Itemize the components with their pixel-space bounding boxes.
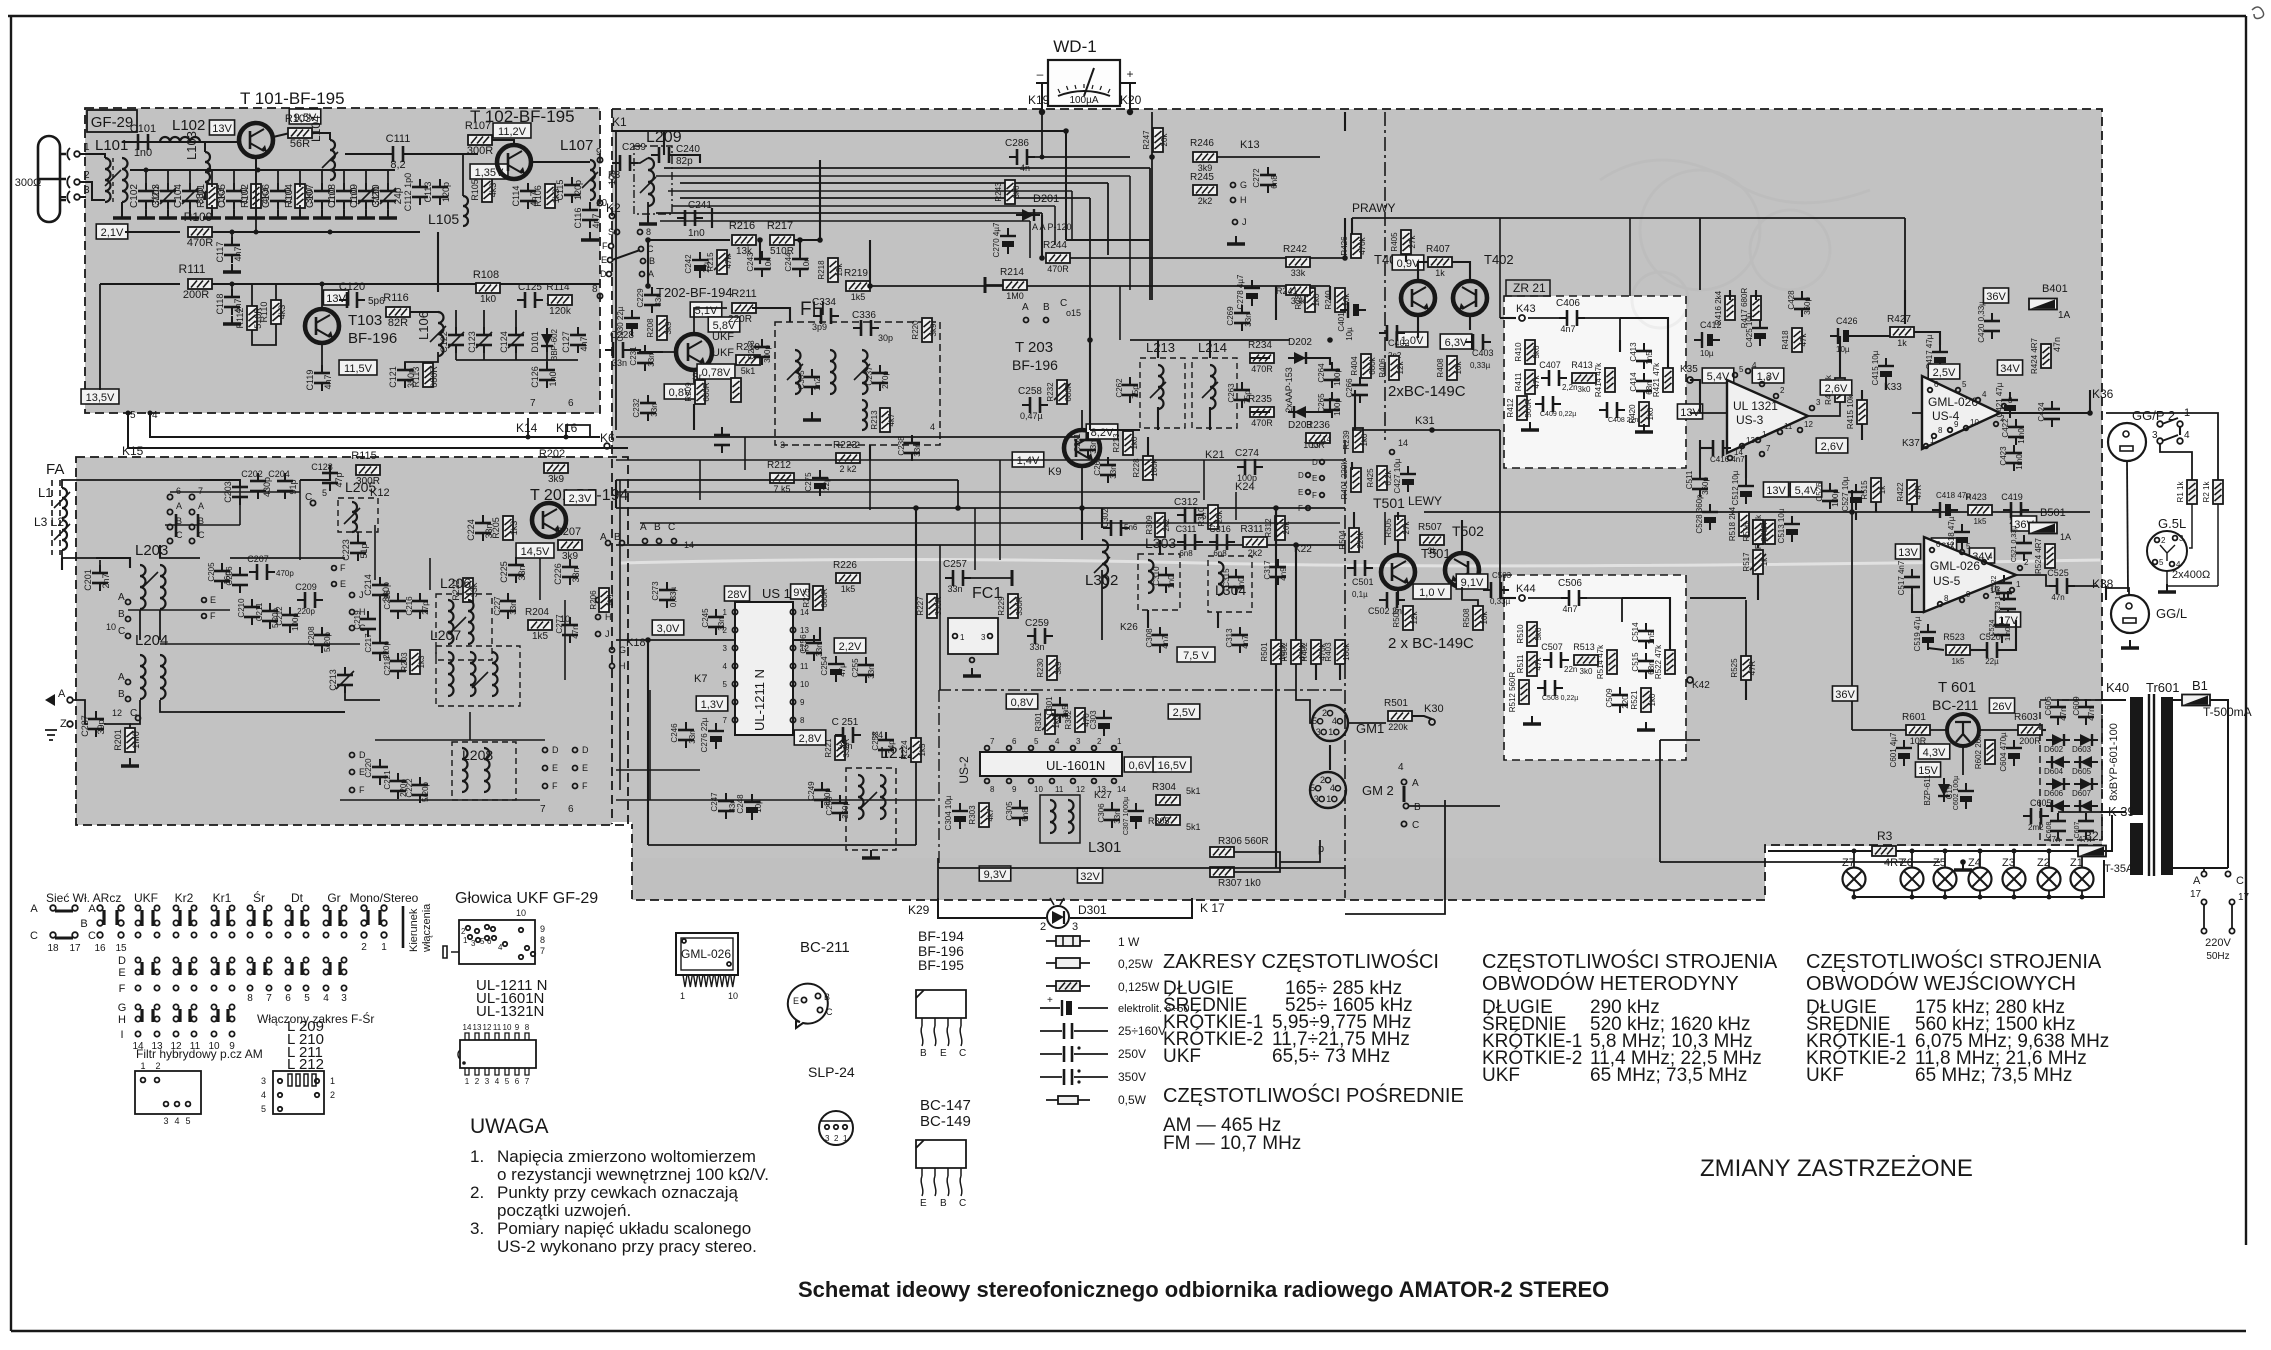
svg-text:2 x BC-149C: 2 x BC-149C: [1388, 635, 1474, 652]
svg-text:R602 26k: R602 26k: [1974, 734, 1983, 769]
tuner GF-29 dashed border: [85, 108, 600, 413]
capacitor C123: [476, 327, 492, 353]
scan shading central block: [612, 109, 2102, 900]
wire: [121, 202, 123, 210]
svg-text:Z4: Z4: [1968, 857, 1981, 869]
svg-text:4: 4: [930, 422, 935, 432]
capacitor C105: [226, 183, 242, 209]
svg-text:1: 1: [463, 936, 468, 945]
capacitor C517: [1904, 569, 1920, 595]
capacitor C514: [1638, 623, 1654, 649]
svg-text:1k3: 1k3: [509, 521, 519, 536]
AM row 740: [375, 739, 545, 741]
svg-text:2k2: 2k2: [1248, 548, 1263, 558]
svg-text:3k9: 3k9: [1054, 661, 1063, 674]
junction: [1852, 895, 1857, 900]
resistor R408: [1447, 356, 1457, 380]
svg-text:4k7: 4k7: [887, 413, 896, 426]
resistor R414: [1605, 368, 1615, 392]
svg-text:47n: 47n: [2052, 337, 2062, 352]
matrix bar D-E b: [188, 962, 191, 975]
svg-text:R508: R508: [1462, 608, 1471, 628]
svg-text:C277: C277: [555, 614, 564, 634]
svg-text:C243: C243: [746, 252, 755, 272]
wire: [2105, 586, 2107, 600]
svg-text:R108: R108: [473, 269, 499, 281]
US2 pin 2: [1092, 746, 1097, 751]
svg-text:R408: R408: [1436, 358, 1445, 378]
left drop: [99, 284, 101, 390]
svg-text:8,2V: 8,2V: [1091, 427, 1114, 439]
svg-text:C272: C272: [1252, 168, 1261, 188]
capacitor C240: [651, 147, 677, 163]
R102 bottom lead: [255, 205, 257, 214]
resistor R417: [1751, 296, 1761, 320]
svg-text:3: 3: [1072, 921, 1078, 933]
US4 pin 5: [1956, 388, 1961, 393]
svg-text:D: D: [582, 745, 589, 755]
wire: [455, 349, 457, 360]
svg-text:26V: 26V: [1992, 701, 2012, 713]
capacitor C302: [1103, 520, 1129, 536]
svg-text:1n0: 1n0: [548, 371, 558, 386]
coil L101 secondary: [122, 158, 128, 202]
matrix contact: [229, 969, 234, 974]
US2 pin 9: [1007, 779, 1012, 784]
matrix bar D-E a: [178, 962, 181, 975]
ground C102: [137, 210, 155, 218]
capacitor C308: [1152, 627, 1168, 653]
terminal 17a: [2201, 899, 2206, 904]
lamp: [1843, 868, 1866, 891]
capacitor C303: [1096, 710, 1112, 736]
switch contact F: [332, 566, 337, 571]
resistor R218: [828, 258, 838, 282]
svg-text:C263: C263: [1227, 383, 1236, 403]
svg-text:Napięcia zmierzono woltomier: Napięcia zmierzono woltomierzem: [497, 1147, 756, 1166]
svg-text:C261: C261: [1073, 433, 1082, 453]
svg-text:R524 4R7: R524 4R7: [2034, 537, 2043, 574]
ground C108: [335, 210, 353, 218]
svg-text:680k: 680k: [1368, 356, 1377, 374]
wire: [1622, 598, 1670, 650]
kierunek separator: [402, 906, 405, 948]
svg-text:9: 9: [515, 1023, 520, 1032]
capacitor C206: [232, 567, 248, 593]
svg-text:5: 5: [1034, 737, 1039, 746]
row 240: [648, 239, 730, 241]
matrix contact: [154, 969, 159, 974]
svg-text:L107: L107: [560, 137, 593, 154]
resistor R401: [1351, 468, 1361, 492]
svg-text:B: B: [118, 609, 125, 620]
capacitor C518: [1954, 524, 1970, 550]
US1 pin 11: [790, 663, 795, 668]
svg-text:12k: 12k: [1410, 611, 1419, 625]
svg-text:4R7: 4R7: [1884, 857, 1904, 869]
voltage 1,3V: [1752, 368, 1784, 383]
matrix contact: [247, 920, 252, 925]
svg-text:B: B: [80, 918, 87, 930]
capacitor C507: [1543, 652, 1569, 668]
svg-text:33n: 33n: [484, 523, 494, 538]
svg-text:14: 14: [463, 1023, 472, 1032]
matrix bar D-E b: [263, 962, 266, 975]
L207 box: [436, 646, 520, 706]
svg-text:6: 6: [515, 1077, 520, 1086]
terminal: [278, 1107, 282, 1111]
T101 collector wire: [273, 133, 290, 137]
R102 top lead: [255, 170, 257, 187]
resistor R213b: [880, 408, 890, 432]
capacitor C266: [1352, 377, 1368, 403]
AM row 644: [160, 643, 360, 645]
switch contact S: [615, 230, 620, 235]
switch bar: [175, 514, 178, 537]
svg-text:6,2k: 6,2k: [1384, 469, 1393, 485]
glowica pin 1: [468, 935, 472, 939]
GGP contact 3: [2157, 438, 2163, 444]
coil L214: [1210, 365, 1216, 409]
svg-text:A: A: [30, 903, 38, 915]
svg-text:R510: R510: [1516, 624, 1525, 644]
L214 box: [1192, 358, 1237, 428]
coil L209: [648, 158, 654, 206]
svg-text:22n: 22n: [1564, 665, 1577, 674]
svg-text:C120: C120: [339, 281, 365, 293]
resistor R227: [927, 594, 937, 618]
capacitor C417: [1932, 344, 1948, 370]
svg-text:C: C: [959, 1198, 966, 1209]
resistor R521: [1641, 688, 1651, 712]
matrix contact: [303, 905, 308, 910]
svg-text:C221: C221: [383, 770, 392, 790]
terminal: [136, 716, 141, 721]
ground C109: [357, 210, 375, 218]
svg-text:10µ: 10µ: [1836, 345, 1850, 354]
wire: [300, 470, 330, 480]
svg-text:4: 4: [261, 1090, 266, 1100]
svg-text:C: C: [1412, 820, 1419, 831]
junction: [230, 282, 235, 287]
svg-text:R405: R405: [1390, 232, 1399, 252]
svg-text:H: H: [1240, 195, 1247, 205]
ground R102: [247, 210, 265, 218]
svg-text:1 W: 1 W: [1118, 935, 1140, 949]
meter terminal minus: [1036, 82, 1048, 84]
resistor R?: [731, 378, 741, 402]
matrix contact: [154, 1016, 159, 1021]
svg-text:27p: 27p: [421, 601, 430, 615]
svg-text:C114: C114: [511, 186, 521, 207]
capacitor C219: [360, 611, 376, 637]
svg-text:D604: D604: [2044, 767, 2064, 776]
resistor R116: [386, 307, 410, 317]
svg-text:47k: 47k: [1534, 657, 1543, 671]
pin4 dot: [148, 411, 153, 416]
capacitor C207: [249, 564, 275, 580]
svg-text:E: E: [552, 763, 558, 773]
svg-text:E: E: [359, 767, 365, 777]
switch contact 8: [638, 230, 643, 235]
voltage 13V T103: [323, 290, 348, 305]
svg-text:2: 2: [330, 1090, 335, 1100]
svg-text:C242: C242: [684, 254, 693, 274]
cutout border upper: [1504, 296, 1686, 468]
contact E: [1320, 476, 1325, 481]
resistor R517: [1753, 550, 1763, 574]
diode D603: [2074, 734, 2098, 746]
capacitor C202: [250, 473, 266, 499]
capacitor C111: [385, 146, 411, 162]
svg-text:1k: 1k: [1878, 485, 1887, 494]
glowica pin 3: [476, 938, 480, 942]
svg-text:R202: R202: [539, 448, 565, 460]
US3 pin 4: [1746, 369, 1751, 374]
C105 top lead: [233, 170, 235, 187]
svg-text:7,5 V: 7,5 V: [1183, 650, 1209, 662]
US2 pin 7: [985, 746, 990, 751]
resistor R201: [125, 728, 135, 752]
matrix contact: [191, 905, 196, 910]
filter pad 2: [155, 1078, 160, 1083]
svg-text:13V: 13V: [212, 123, 232, 135]
svg-text:C116: C116: [573, 208, 583, 229]
capacitor C264: [1324, 362, 1340, 388]
svg-text:G: G: [118, 1002, 127, 1014]
svg-text:120p: 120p: [441, 182, 451, 202]
US5 pin 9: [1960, 598, 1965, 603]
ground C105: [225, 210, 243, 218]
svg-text:3.: 3.: [470, 1219, 484, 1238]
svg-text:C310: C310: [1152, 566, 1161, 586]
matrix contact: [285, 969, 290, 974]
svg-text:11: 11: [800, 662, 809, 671]
row 508: [616, 507, 1345, 509]
resistor R407: [1428, 257, 1452, 267]
svg-text:0,5W: 0,5W: [1118, 1093, 1147, 1107]
US4 pin 4: [1976, 398, 1981, 403]
svg-text:470R: 470R: [1047, 264, 1069, 274]
matrix bar A-B a: [140, 910, 143, 926]
AM drop 540: [539, 558, 541, 600]
capacitor C317: [1270, 559, 1286, 585]
svg-text:Kr1: Kr1: [213, 891, 232, 905]
svg-text:B501: B501: [2040, 507, 2066, 519]
matrix contact: [285, 985, 290, 990]
svg-text:R211: R211: [731, 288, 756, 300]
svg-text:3k9: 3k9: [664, 321, 673, 334]
lamp: [2038, 868, 2061, 891]
matrix bar D-E a: [252, 962, 255, 975]
switch contact B: [167, 524, 172, 529]
svg-text:1n0: 1n0: [1167, 575, 1176, 589]
US1 pin 7: [732, 717, 737, 722]
US5 pin 2: [2018, 566, 2023, 571]
voltage 9,1V: [1456, 574, 1488, 589]
voltage 1,0V T501: [1413, 584, 1451, 599]
capacitor C247: [718, 793, 734, 819]
detector bottom rail: [456, 359, 578, 361]
capacitor C128: [322, 465, 338, 491]
svg-text:R235: R235: [1248, 394, 1272, 405]
svg-text:47n: 47n: [2047, 835, 2060, 844]
svg-text:2: 2: [361, 942, 367, 953]
SLP-24 pin 1: [843, 1125, 847, 1129]
svg-text:A: A: [1022, 302, 1029, 313]
ground C107: [313, 210, 331, 218]
wire: [200, 479, 240, 481]
R101 bottom lead: [211, 205, 213, 214]
svg-text:R525: R525: [1730, 658, 1739, 678]
terminal 19: [2225, 871, 2230, 876]
wire C286 to R246: [1030, 156, 1130, 158]
svg-text:K19: K19: [1028, 93, 1050, 107]
coil L213: [1158, 365, 1164, 409]
C110 top lead: [387, 170, 389, 187]
svg-text:C273: C273: [651, 581, 660, 601]
resistor R301: [1045, 710, 1055, 734]
matrix bar A-B b: [188, 910, 191, 926]
svg-text:C513 10µ: C513 10µ: [1777, 508, 1786, 543]
svg-text:6: 6: [285, 993, 291, 1004]
US3 pin 14: [1728, 456, 1733, 461]
svg-text:K1: K1: [612, 115, 627, 129]
row R111: [100, 283, 180, 285]
filter coil bar 2: [296, 1074, 300, 1086]
svg-text:1: 1: [1117, 737, 1122, 746]
T103 emitter down: [321, 343, 323, 369]
svg-text:82p: 82p: [676, 156, 693, 167]
capacitor C301: [1052, 697, 1068, 723]
matrix bar A-B a: [328, 910, 331, 926]
FC1 pin3: [988, 634, 993, 639]
wire K15 bus: [128, 413, 628, 448]
svg-text:4: 4: [174, 1116, 179, 1126]
diode D606: [2046, 778, 2070, 790]
capacitor C509: [1612, 687, 1628, 713]
R215 arrow: [714, 254, 730, 270]
L203 arrow: [142, 572, 158, 588]
lamp Z2 bottom lead: [2048, 891, 2050, 897]
US4 output wire: [2000, 412, 2090, 414]
US5 pin 10: [1984, 594, 1989, 599]
matrix contact: [341, 932, 346, 937]
US1 pin 10: [790, 681, 795, 686]
svg-text:C119: C119: [305, 370, 315, 391]
resistor R423: [1968, 505, 1992, 515]
wire: [1582, 318, 1620, 340]
antenna terminal 3: [67, 191, 70, 203]
svg-text:R232: R232: [1046, 382, 1055, 402]
svg-text:30p: 30p: [878, 333, 893, 343]
svg-text:8: 8: [1944, 594, 1949, 603]
resistor R422: [1907, 480, 1917, 504]
svg-text:12: 12: [112, 708, 122, 718]
svg-text:R208: R208: [646, 318, 655, 338]
svg-text:3: 3: [2152, 430, 2158, 441]
page border left: [10, 16, 12, 1331]
svg-text:17: 17: [69, 943, 81, 954]
resistor R103: [288, 128, 312, 138]
svg-text:L1: L1: [38, 485, 52, 500]
opamp US-5: [1924, 537, 2016, 612]
R214 gnd bar: [984, 277, 987, 293]
capacitor C315: [1228, 569, 1244, 595]
lamp: [2003, 868, 2026, 891]
svg-text:R423: R423: [1965, 492, 1987, 502]
capacitor C524: [1994, 617, 2010, 643]
capacitor C502: [1379, 592, 1405, 608]
svg-text:5k6: 5k6: [1534, 627, 1543, 640]
capacitor C414: [1636, 373, 1652, 399]
lamp Z4 bottom lead: [1979, 891, 1981, 897]
resistor R412: [1517, 396, 1527, 420]
svg-text:2,2n: 2,2n: [1562, 383, 1578, 392]
svg-text:4: 4: [1055, 737, 1060, 746]
capacitor C515: [1638, 653, 1654, 679]
L106 to C121: [405, 352, 438, 366]
wire: [2179, 427, 2181, 435]
bus 168: [664, 167, 1150, 169]
C110 trim arrow: [380, 188, 396, 204]
capacitor C269: [1234, 305, 1250, 331]
matrix contact: [154, 1004, 159, 1009]
earth terminal: [45, 730, 57, 740]
svg-text:220R: 220R: [728, 314, 752, 325]
svg-text:47n: 47n: [2087, 707, 2096, 720]
gnd box2 a: [1523, 716, 1541, 724]
svg-text:1: 1: [843, 1134, 848, 1143]
capacitor C208: [314, 627, 330, 653]
capacitor C306: [1104, 802, 1120, 828]
capacitor C246: [678, 722, 694, 748]
resistor R506: [1403, 606, 1413, 630]
svg-text:Z5: Z5: [1933, 857, 1946, 869]
svg-text:R305: R305: [1148, 816, 1170, 826]
svg-text:SLP-24: SLP-24: [808, 1064, 855, 1080]
svg-text:D202: D202: [1288, 337, 1312, 348]
svg-text:R213: R213: [1112, 433, 1121, 453]
voltage 2,2V: [834, 638, 866, 653]
meter right lead: [1129, 83, 1131, 112]
terminal: [310, 500, 315, 505]
matrix contact: [211, 905, 216, 910]
resistor R514: [1607, 650, 1617, 674]
svg-text:R204: R204: [525, 607, 549, 618]
svg-text:C101: C101: [130, 123, 156, 135]
resistor R310: [1208, 505, 1218, 529]
svg-text:0,78V: 0,78V: [702, 367, 731, 379]
matrix contact: [247, 932, 252, 937]
capacitor C407: [1541, 370, 1567, 386]
L101 tuning arrow: [105, 170, 121, 186]
capacitor C229: [644, 287, 660, 313]
capacitor C286: [1009, 149, 1035, 165]
terminal: [126, 634, 131, 639]
resistor R603: [2018, 725, 2042, 735]
wire: [1528, 317, 1562, 319]
filter pad 4: [175, 1102, 180, 1107]
BC package body: [916, 1140, 966, 1168]
capacitor C124: [508, 327, 524, 353]
capacitor C256: [806, 635, 822, 661]
svg-text:8: 8: [592, 284, 598, 295]
MS contact: [381, 920, 387, 926]
svg-text:1.: 1.: [470, 1147, 484, 1166]
svg-text:1k0: 1k0: [1312, 293, 1321, 306]
svg-text:R114: R114: [546, 282, 570, 293]
